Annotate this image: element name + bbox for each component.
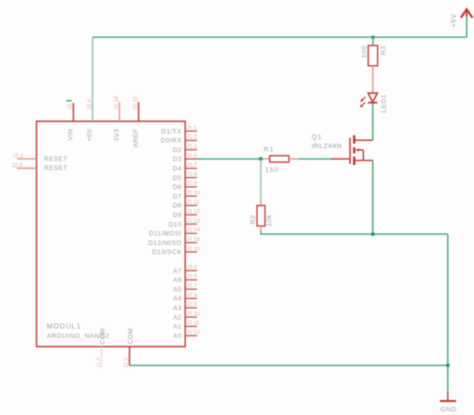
node junction source / R2 net: [371, 232, 375, 236]
pin D8 J1.11: [173, 200, 200, 210]
pin A7 J2.5: [173, 265, 197, 275]
svg-text:R3: R3: [380, 46, 387, 56]
svg-text:COM: COM: [100, 328, 107, 344]
pin A4 J2.8: [173, 293, 197, 303]
svg-text:A3: A3: [173, 305, 182, 312]
svg-text:3V3: 3V3: [114, 129, 121, 142]
pin D6 J1.9: [173, 181, 197, 191]
svg-text:J1.15: J1.15: [187, 237, 200, 243]
pin D11/MOSI J1.14: [149, 228, 200, 238]
svg-text:D13/SCK: D13/SCK: [152, 249, 182, 256]
svg-text:J2.8: J2.8: [187, 293, 197, 299]
pin D5 J1.8: [173, 172, 197, 182]
pin D0/RX J1.2: [161, 135, 197, 145]
wire R1 to Q1 gate: [298, 158, 331, 160]
svg-text:J2.13: J2.13: [133, 96, 139, 109]
svg-text:D1/TX: D1/TX: [161, 128, 182, 135]
svg-text:D11/MOSI: D11/MOSI: [149, 231, 182, 238]
svg-text:D9: D9: [173, 212, 182, 219]
svg-text:J1.10: J1.10: [187, 191, 200, 197]
wire source net to right riser: [447, 234, 449, 391]
svg-text:J1.13: J1.13: [187, 218, 200, 224]
pin D1/TX J1.1: [161, 125, 197, 135]
svg-text:D0/RX: D0/RX: [161, 138, 182, 145]
svg-text:J1.6: J1.6: [187, 153, 197, 159]
svg-text:D8: D8: [173, 203, 182, 210]
svg-text:+5V: +5V: [87, 128, 94, 141]
svg-text:COM: COM: [128, 328, 135, 344]
pin A5 J2.7: [173, 284, 197, 294]
pin D4 J1.7: [173, 163, 197, 173]
pin AREF J2.13: [133, 96, 140, 147]
svg-text:D3: D3: [173, 156, 182, 163]
pin A0 J2.12: [173, 330, 200, 340]
wire +5V riser to supply symbol: [466, 14, 468, 38]
module MODUL1 ARDUINO_NANO2 box: [37, 121, 186, 346]
pin COM J2.2: [124, 328, 135, 368]
svg-text:MODUL1: MODUL1: [47, 324, 82, 331]
pin A1 J2.11: [173, 321, 199, 331]
pin A2 J2.10: [173, 311, 200, 321]
wire Q1 source down: [372, 160, 374, 234]
wire artifact near VIN: [66, 100, 71, 102]
supply symbol +5V: [451, 9, 473, 27]
pin A6 J2.6: [173, 274, 197, 284]
svg-text:J1.2: J1.2: [187, 135, 197, 141]
svg-text:J2.3: J2.3: [12, 163, 22, 169]
wire junction down to R2: [260, 159, 262, 201]
svg-text:A5: A5: [173, 286, 182, 293]
svg-text:VIN: VIN: [68, 129, 75, 141]
ground GND: [440, 392, 457, 414]
wire bottom rail from COM: [130, 364, 448, 366]
svg-text:D4: D4: [173, 166, 182, 173]
node junction top rail to R3: [371, 35, 375, 39]
svg-text:J1.7: J1.7: [187, 163, 197, 169]
svg-text:RESET: RESET: [44, 165, 68, 172]
svg-text:J2.5: J2.5: [187, 265, 197, 271]
svg-text:10k: 10k: [266, 214, 273, 226]
pin A3 J2.9: [173, 302, 197, 312]
svg-text:J1.4: J1.4: [96, 358, 102, 368]
svg-text:J1.5: J1.5: [187, 144, 197, 150]
resistor R1 150: [263, 147, 299, 174]
svg-text:R1: R1: [264, 147, 275, 154]
svg-text:J2.6: J2.6: [187, 274, 197, 280]
wire +5V top rail: [93, 36, 467, 38]
wire rail to R3: [372, 37, 374, 45]
svg-text:R2: R2: [250, 215, 257, 225]
pin RESET J2.3: [12, 163, 68, 172]
svg-text:D6: D6: [173, 184, 182, 191]
pin D12/MISO J1.15: [148, 237, 200, 247]
node junction bottom rail: [446, 364, 450, 368]
svg-text:A0: A0: [173, 333, 182, 340]
resistor R3 100: [361, 45, 387, 65]
svg-text:RESET: RESET: [44, 156, 68, 163]
pin RESET J1.3: [13, 154, 68, 163]
svg-text:100: 100: [361, 45, 368, 58]
pin VIN J2.1: [68, 99, 75, 140]
svg-text:J1.3: J1.3: [13, 154, 23, 160]
resistor R2 10k: [250, 201, 273, 232]
svg-text:J2.7: J2.7: [187, 284, 197, 290]
svg-text:IRLZ44N: IRLZ44N: [312, 143, 342, 150]
svg-text:J2.2: J2.2: [124, 358, 130, 368]
svg-text:J2.9: J2.9: [187, 302, 197, 308]
LED LED1: [360, 93, 388, 113]
svg-text:150: 150: [265, 167, 279, 174]
svg-text:J2.14: J2.14: [114, 96, 120, 109]
svg-text:J2.11: J2.11: [187, 321, 200, 327]
pin D10 J1.13: [169, 218, 200, 228]
wire R3 to LED1 anode: [372, 66, 374, 93]
wire D3 net from module to junction: [197, 158, 261, 160]
svg-text:+5V: +5V: [451, 14, 458, 28]
pin 3V3 J2.14: [114, 96, 121, 141]
pin D2 J1.5: [173, 144, 197, 154]
svg-text:A7: A7: [173, 268, 182, 275]
wire +5V vertical from module pin: [92, 37, 94, 121]
svg-text:D5: D5: [173, 175, 182, 182]
pin D3 J1.6: [173, 153, 197, 163]
pin COM J1.4: [96, 328, 107, 368]
svg-text:LED1: LED1: [381, 94, 388, 113]
svg-text:J1.14: J1.14: [187, 228, 200, 234]
pin D13/SCK J2.15: [152, 246, 200, 256]
svg-text:J1.8: J1.8: [187, 172, 197, 178]
svg-text:AREF: AREF: [133, 129, 140, 148]
svg-text:J1.1: J1.1: [187, 125, 197, 131]
svg-text:A6: A6: [173, 277, 182, 284]
transistor Q1 IRLZ44N: [312, 134, 373, 165]
svg-text:J1.12: J1.12: [187, 209, 200, 215]
svg-text:D12/MISO: D12/MISO: [148, 240, 181, 247]
pin D7 J1.10: [173, 191, 200, 201]
svg-text:J2.12: J2.12: [187, 330, 200, 336]
svg-text:J1.11: J1.11: [187, 200, 200, 206]
node junction D3 / R1 / R2: [259, 157, 263, 161]
svg-text:J1.9: J1.9: [187, 181, 197, 187]
svg-text:Q1: Q1: [312, 134, 323, 141]
svg-text:D2: D2: [173, 147, 182, 154]
svg-text:A1: A1: [173, 324, 182, 331]
wire R2 bottom to source net: [261, 231, 448, 234]
svg-text:J2.10: J2.10: [187, 311, 200, 317]
svg-text:A4: A4: [173, 296, 182, 303]
svg-text:D10: D10: [169, 221, 182, 228]
svg-text:D7: D7: [173, 193, 182, 200]
svg-text:J2.15: J2.15: [187, 246, 200, 252]
svg-text:A2: A2: [173, 314, 182, 321]
pin +5V J2.4: [87, 99, 94, 141]
svg-text:GND: GND: [440, 407, 456, 414]
wire LED1 cathode to Q1 drain: [372, 103, 374, 140]
pin D9 J1.12: [173, 209, 200, 219]
